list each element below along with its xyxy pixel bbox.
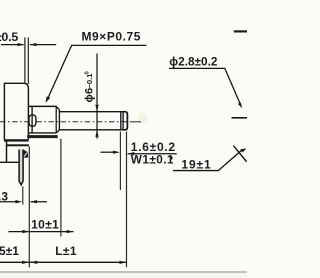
top right cut line	[234, 30, 247, 32]
svg-text:ϕ2.8±0.2: ϕ2.8±0.2	[169, 55, 218, 69]
frame line bottom	[0, 271, 247, 273]
lower margin strip	[0, 273, 247, 278]
ext line slot left	[119, 132, 121, 191]
shaft slot line 2	[122, 112, 124, 130]
svg-text:L±1: L±1	[55, 244, 77, 258]
ext line shaft end (long)	[126, 132, 128, 268]
crossing line	[233, 146, 246, 162]
bushing right face	[58, 110, 60, 131]
svg-text:0: 0	[84, 71, 90, 74]
svg-text:M9×P0.75: M9×P0.75	[82, 29, 141, 43]
M9 leader	[47, 45, 146, 99]
fraction bar + left arrow	[128, 153, 177, 155]
svg-text:19±1: 19±1	[181, 158, 211, 172]
dim 10±1 arrows	[22, 230, 29, 233]
body lower-left face	[6, 142, 8, 163]
dim ±0.5 left arrow	[1, 44, 24, 46]
dim ±0.5 ext lines	[24, 37, 26, 84]
bushing thread witness line	[31, 106, 33, 133]
body bottom edge (thick)	[4, 139, 29, 141]
bushing top edge	[29, 105, 57, 107]
body lower step	[7, 144, 30, 146]
dim ±0.5 right arrow	[30, 44, 56, 46]
dim 1.6/W1 left arrow	[101, 151, 116, 153]
ext line mounting face (long)	[28, 147, 30, 268]
paper background	[0, 0, 247, 278]
19 leader	[173, 150, 242, 171]
ext line bushing end	[60, 139, 62, 237]
dim .3 left arrow	[0, 201, 18, 203]
svg-text:±0.5: ±0.5	[0, 30, 18, 44]
dim φ6 arrows	[95, 105, 98, 112]
terminal bend hatch	[23, 149, 28, 157]
bushing base bar (thick)	[27, 135, 58, 138]
speck	[170, 156, 172, 159]
dim φ6 line	[96, 54, 98, 139]
shaft slot line 1	[120, 112, 122, 130]
bushing chamfers	[56, 106, 59, 132]
dim L line	[0, 261, 127, 263]
svg-text:5±1: 5±1	[0, 244, 19, 258]
dim .3 right arrow	[31, 201, 48, 203]
bushing chamfer line	[55, 106, 57, 133]
ext line terminal	[22, 186, 24, 204]
svg-text:10±1: 10±1	[31, 218, 59, 232]
terminal lug	[19, 150, 23, 185]
shaft	[59, 112, 127, 130]
φ2.8 leader	[169, 68, 241, 105]
center line	[0, 121, 141, 123]
svg-text:W1±0.1: W1±0.1	[131, 153, 174, 167]
stain	[138, 113, 148, 125]
svg-text:ϕ6: ϕ6	[84, 88, 96, 103]
bushing bottom edge	[29, 132, 57, 134]
body	[4, 83, 28, 140]
dim 10±1 line	[9, 231, 74, 233]
L arrows	[22, 261, 29, 264]
dim φ6 text (rotated)	[84, 71, 96, 102]
body lower edge to terminal	[0, 161, 19, 163]
mounting tab	[29, 115, 36, 126]
right mid line	[232, 117, 248, 119]
